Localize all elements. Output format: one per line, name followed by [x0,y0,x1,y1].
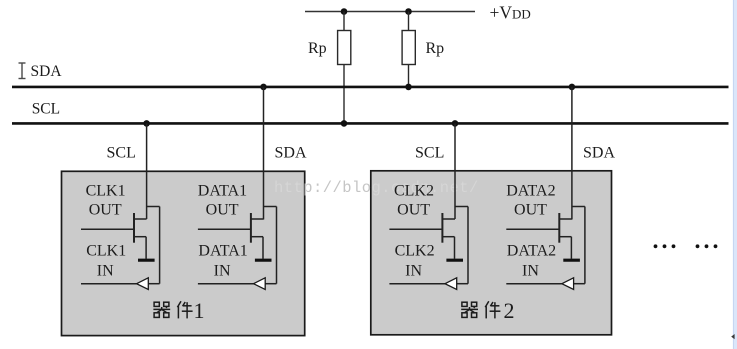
buffer U1b (DATA1 input) [254,278,266,290]
text cursor I-beam [19,63,26,79]
wire drain-to-buffer branch [81,207,160,284]
wire SDA tap device1 [263,87,265,220]
wire SCL tap device1 [146,123,148,219]
node rail/Rp1 junction [341,8,348,15]
node Rp2/SDA junction [405,84,412,91]
wire +VDD rail [305,11,475,13]
node Rp1/SCL junction [341,120,348,127]
node rail/Rp2 junction [405,8,412,15]
svg-text:IN: IN [214,263,231,280]
wire SCL tap device2 [454,123,456,219]
wire drain-to-buffer branch [198,207,277,284]
svg-text:SDA: SDA [275,145,307,162]
svg-text:OUT: OUT [397,202,430,219]
device block 器件1 [62,171,305,335]
svg-text:DATA1: DATA1 [198,243,247,260]
transistor Q4 (DATA2 output NMOS) [506,213,572,259]
svg-text:CLK2: CLK2 [394,183,434,200]
svg-text:IN: IN [522,263,539,280]
svg-text:DATA2: DATA2 [506,183,555,200]
svg-text:OUT: OUT [89,202,122,219]
svg-text:SDA: SDA [31,63,63,80]
resistor Rp1 [338,12,351,124]
svg-text:DATA2: DATA2 [507,243,556,260]
ground (DATA1 source) [255,259,272,262]
transistor Q2 (DATA1 output NMOS) [198,213,264,259]
svg-text:IN: IN [405,263,422,280]
svg-text:SCL: SCL [415,145,444,162]
buffer U1a (CLK1 input) [137,278,149,290]
wire drain-to-buffer branch [506,207,585,284]
svg-text:SCL: SCL [107,145,136,162]
buffer U2a (CLK2 input) [445,278,457,290]
scrollbar strip [733,0,737,349]
svg-text:Rp: Rp [426,40,445,57]
svg-text:SDA: SDA [583,145,615,162]
ground (CLK2 source) [446,259,463,262]
transistor Q3 (CLK2 output NMOS) [389,213,455,259]
label 器件1 (hand-drawn glyphs) [153,298,204,323]
node SCL/device2 junction [452,120,459,127]
svg-text:Rp: Rp [308,40,327,57]
scrollbar arrow [731,334,734,339]
svg-text:IN: IN [97,263,114,280]
ground (DATA2 source) [563,259,580,262]
svg-text:SCL: SCL [32,101,60,118]
ellipsis dots group 2 [696,244,718,248]
device block 器件2 [371,171,612,335]
wire SDA tap device2 [571,87,573,220]
svg-text:OUT: OUT [514,202,547,219]
svg-text:1: 1 [194,298,205,323]
transistor Q1 (CLK1 output NMOS) [81,213,147,259]
node SDA/device1 junction [260,84,267,91]
svg-text:CLK1: CLK1 [86,243,126,260]
svg-text:OUT: OUT [206,202,239,219]
svg-text:CLK2: CLK2 [395,243,435,260]
svg-text:CLK1: CLK1 [86,183,126,200]
resistor Rp2 [402,12,415,87]
wire SCL bus [12,122,729,125]
node SDA/device2 junction [569,84,576,91]
ground (CLK1 source) [138,259,155,262]
svg-text:2: 2 [504,298,515,323]
svg-text:DATA1: DATA1 [198,183,247,200]
ellipsis dots group 1 [654,244,676,248]
wire drain-to-buffer branch [389,207,468,284]
buffer U2b (DATA2 input) [562,278,574,290]
wire SDA bus [12,86,729,89]
label 器件2 (hand-drawn glyphs) [461,298,514,323]
node SCL/device1 junction [143,120,150,127]
